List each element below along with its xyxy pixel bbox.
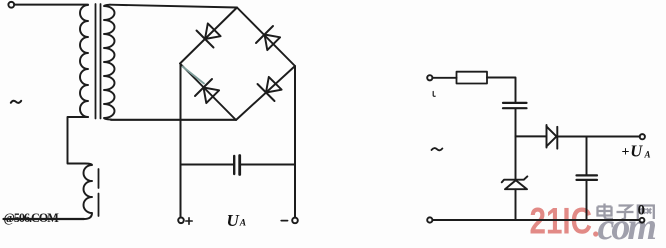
- wire C2 to node: [515, 109, 517, 136]
- capacitor C3 plates: [577, 174, 598, 176]
- diode VD4 (bottom-right arm): [258, 77, 282, 101]
- terminal A (AC input top-left): [8, 2, 14, 8]
- diode VD3 (bottom-left arm): [195, 79, 219, 103]
- svg-text:+: +: [622, 145, 630, 160]
- diode VD2 (top-right arm): [256, 26, 280, 50]
- wire input top to primary: [14, 4, 88, 6]
- wire bottom rail: [432, 219, 639, 221]
- scan artifact line: [183, 67, 205, 84]
- svg-text:U: U: [227, 211, 240, 230]
- wire diode to output: [557, 136, 640, 138]
- terminal bottom-left (right circuit): [427, 217, 432, 222]
- label +UA (right): [622, 142, 651, 219]
- wire resistor to C2: [487, 78, 516, 102]
- svg-text:0: 0: [638, 203, 645, 219]
- wang: [638, 206, 654, 220]
- svg-text:A: A: [644, 150, 651, 160]
- plus sign: [186, 218, 192, 224]
- diode VD5: [547, 125, 558, 149]
- wire secondary top to bridge apex: [110, 5, 237, 8]
- watermark red dot: [593, 231, 598, 236]
- transformer T1 primary winding (lower): [84, 164, 93, 220]
- svg-text:@506.COM: @506.COM: [4, 211, 60, 225]
- wire primary step link: [68, 117, 89, 164]
- capacitor C2 plates: [503, 102, 527, 104]
- capacitor C1 wires: [181, 164, 234, 166]
- transformer T1 primary winding (upper): [80, 5, 88, 117]
- wire right rail (-): [294, 66, 296, 218]
- watermark dianziwang glyphs: [598, 204, 654, 220]
- wire node to diode: [516, 135, 547, 137]
- transformer core: [95, 4, 97, 119]
- wire to resistor: [433, 77, 457, 79]
- wire left rail (+): [180, 64, 182, 218]
- minus sign: [281, 220, 287, 222]
- dian: [598, 204, 614, 219]
- wire zener branch: [515, 136, 517, 178]
- zi: [617, 206, 634, 220]
- terminal -: [292, 218, 298, 224]
- terminal +: [178, 218, 184, 224]
- svg-text:U: U: [630, 142, 643, 161]
- capacitor C1 plates: [233, 156, 235, 174]
- bridge diamond wires: [180, 8, 295, 121]
- terminal 0: [640, 218, 645, 223]
- zener VS1: [502, 176, 528, 189]
- terminal output: [640, 134, 645, 139]
- wire zener to rail: [515, 189, 517, 220]
- resistor R1: [457, 72, 488, 84]
- terminal input top (right circuit): [427, 75, 432, 80]
- diode VD1 (top-left arm): [197, 23, 221, 47]
- wire C3 to rail: [586, 181, 588, 220]
- wire C3 branch: [586, 137, 588, 175]
- transformer T1 secondary winding: [104, 5, 115, 120]
- tilde AC mark right: [432, 148, 443, 150]
- wire secondary bottom to bridge bottom vertex: [111, 119, 236, 121]
- wire AC input bottom-left: [4, 218, 85, 220]
- label UA (left): [227, 211, 247, 230]
- svg-text:A: A: [239, 218, 246, 228]
- tilde AC mark left: [11, 101, 21, 103]
- small tick: [433, 92, 435, 97]
